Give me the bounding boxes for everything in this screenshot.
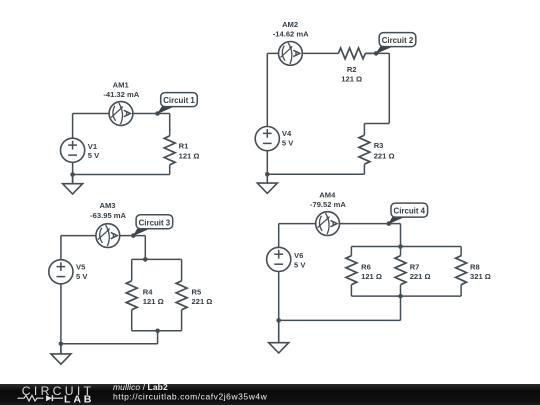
svg-text:121 Ω: 121 Ω (341, 74, 362, 83)
node: C3 top rail junction (143, 257, 148, 262)
svg-text:R5: R5 (192, 287, 202, 296)
svg-text:121 Ω: 121 Ω (179, 152, 200, 161)
node: Circuit 2 flag attachment (374, 51, 379, 56)
ammeter AM4 (310, 190, 346, 235)
wire: C4 top-left corner to AM4 (279, 223, 316, 225)
svg-text:V1: V1 (88, 142, 98, 151)
svg-text:5 V: 5 V (88, 151, 100, 160)
wire: AM1 to R1 top corner (133, 113, 170, 115)
wire: C3 top-left corner to AM3 (61, 235, 96, 237)
svg-text:Circuit 1: Circuit 1 (163, 96, 195, 105)
node: Circuit 1 flag attachment (155, 111, 160, 116)
voltage source V4 (255, 127, 294, 151)
svg-text:R4: R4 (143, 287, 153, 296)
svg-text:V4: V4 (282, 129, 292, 138)
resistor R8 (456, 247, 491, 297)
svg-text:R7: R7 (410, 262, 420, 271)
svg-text:AM1: AM1 (113, 81, 130, 90)
svg-text:http://circuitlab.com/cafv2j6w: http://circuitlab.com/cafv2j6w35w4w (113, 392, 268, 402)
svg-text:-14.62 mA: -14.62 mA (273, 29, 309, 38)
ground (257, 174, 277, 193)
resistor R3 (359, 124, 395, 175)
wire: C2 right vertical (388, 53, 390, 123)
svg-text:R8: R8 (470, 262, 480, 271)
svg-text:221 Ω: 221 Ω (410, 272, 431, 281)
ground (51, 344, 71, 364)
wire: C4 parallel top rail (351, 246, 461, 248)
svg-text:221 Ω: 221 Ω (192, 297, 213, 306)
node: C4 top rail junction (398, 244, 403, 249)
wire: C3 bottom feed vertical (157, 331, 159, 344)
svg-text:Circuit 2: Circuit 2 (382, 36, 414, 45)
node: C4 bottom rail junction (398, 294, 403, 299)
voltage source V1 (61, 138, 101, 162)
wire: C4 bottom return (279, 319, 401, 321)
svg-text:5 V: 5 V (76, 272, 88, 281)
logo schematic glyph: wire, resistor zigzag, diode (18, 396, 64, 402)
node: C2 ground junction (265, 172, 270, 177)
svg-text:5 V: 5 V (294, 260, 306, 269)
wire: AM3 to C3 feed corner (120, 235, 146, 237)
resistor R4 (126, 259, 163, 330)
svg-text:Circuit 3: Circuit 3 (139, 218, 171, 227)
wire: C2 bottom rail (267, 173, 364, 175)
node flag Circuit 4 (388, 203, 428, 224)
svg-text:-41.32 mA: -41.32 mA (103, 90, 139, 99)
wire: jog to R3 (364, 123, 389, 125)
svg-text:5 V: 5 V (282, 139, 294, 148)
node flag Circuit 2 (375, 33, 415, 54)
svg-text:V5: V5 (76, 263, 86, 272)
wire: C1 left vertical to V1 (72, 114, 74, 139)
wire: C1 top-left corner to AM1 (73, 113, 110, 115)
node: C4 ground junction (276, 318, 281, 323)
wire: R2 to C2 right corner (365, 52, 389, 54)
wire: V1 bottom to ground node (72, 162, 74, 183)
wire: C2 top-left corner to AM2 (267, 52, 278, 54)
footer bar (0, 384, 540, 405)
ammeter AM2 (273, 20, 309, 65)
wire: AM4 to C4 right corner (340, 223, 401, 225)
wire: V6 bottom to ground node (278, 272, 280, 343)
svg-text:AM4: AM4 (319, 190, 336, 199)
svg-text:R2: R2 (347, 65, 357, 74)
svg-text:Circuit 4: Circuit 4 (394, 207, 426, 216)
resistor R1 (164, 114, 199, 175)
wire: C4 parallel bottom rail (351, 295, 461, 297)
wire: C3 parallel top rail (132, 258, 182, 260)
wire: C3 parallel bottom rail (132, 330, 182, 332)
node: C3 bottom rail junction (155, 329, 160, 334)
wire: C3 bottom return (61, 343, 158, 345)
voltage source V6 (267, 247, 307, 271)
wire: C3 feed vertical (144, 236, 146, 260)
resistor R6 (346, 247, 382, 297)
svg-text:AM3: AM3 (99, 201, 115, 210)
wire: C1 bottom rail (73, 174, 170, 176)
node: Circuit 3 flag attachment (131, 233, 136, 238)
wire: C4 feed vertical (400, 224, 402, 247)
wire: V4 bottom to ground node (266, 151, 268, 183)
node: C3 ground junction (59, 342, 64, 347)
svg-text:AM2: AM2 (282, 20, 298, 29)
svg-text:R1: R1 (179, 142, 189, 151)
svg-text:LAB: LAB (64, 394, 94, 405)
svg-text:-79.52 mA: -79.52 mA (310, 200, 346, 209)
wire: C4 bottom feed vertical (400, 296, 402, 320)
svg-text:R6: R6 (361, 262, 371, 271)
resistor R7 (395, 247, 431, 297)
ammeter AM1 (103, 81, 139, 126)
node: Circuit 4 flag attachment (387, 221, 392, 226)
svg-text:221 Ω: 221 Ω (374, 151, 395, 160)
resistor R2 (303, 48, 377, 83)
svg-text:121 Ω: 121 Ω (143, 297, 164, 306)
node: C1 ground junction (70, 172, 75, 177)
svg-text:-63.95 mA: -63.95 mA (90, 211, 126, 220)
wire: V5 bottom to ground node (60, 284, 62, 354)
resistor R5 (176, 259, 212, 330)
ground (269, 320, 289, 353)
svg-text:321 Ω: 321 Ω (470, 272, 491, 281)
wire: C3 left vertical to V5 (60, 236, 62, 260)
node flag Circuit 1 (157, 93, 197, 115)
voltage source V5 (49, 260, 89, 284)
svg-text:121 Ω: 121 Ω (361, 272, 382, 281)
node flag Circuit 3 (133, 215, 173, 237)
wire: C2 left vertical to V4 (266, 53, 268, 126)
wire: C4 left vertical to V6 (278, 224, 280, 248)
ammeter AM3 (90, 201, 126, 247)
svg-text:R3: R3 (374, 141, 384, 150)
ground (63, 175, 83, 195)
svg-text:V6: V6 (294, 251, 303, 260)
